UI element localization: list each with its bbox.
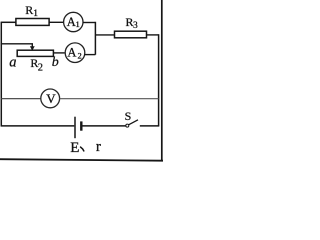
svg-text:1: 1 <box>76 19 80 29</box>
wire: right vertical <box>158 34 160 126</box>
wire: rheostat wiper feed <box>1 44 33 48</box>
wire: voltmeter row right <box>60 98 159 100</box>
svg-text:r: r <box>96 139 101 155</box>
resistor R3 <box>115 31 147 38</box>
svg-text:A: A <box>67 45 76 59</box>
svg-text:S: S <box>125 109 132 123</box>
svg-text:E: E <box>70 140 79 156</box>
label comma of E,r <box>81 147 84 151</box>
svg-text:R: R <box>25 3 33 17</box>
ammeter A1 <box>64 12 83 31</box>
svg-text:a: a <box>9 55 16 71</box>
switch S pivot <box>126 124 129 127</box>
wire: top-left to R1 <box>1 21 16 23</box>
wire: junction to R3 <box>95 34 114 36</box>
wire: R2 to A2 <box>53 52 64 54</box>
svg-text:b: b <box>52 55 59 70</box>
wire: battery to switch <box>83 125 126 127</box>
ammeter A2 <box>65 43 85 63</box>
wiper arrowhead <box>30 46 35 51</box>
svg-text:A: A <box>67 15 76 29</box>
svg-text:1: 1 <box>33 9 38 19</box>
rheostat R2 <box>17 50 53 56</box>
wire: R3 to right vertical <box>147 34 159 36</box>
wire: R1 to A1 <box>49 21 64 23</box>
switch S lever (open) <box>129 120 138 125</box>
svg-text:3: 3 <box>133 21 138 31</box>
svg-text:2: 2 <box>38 62 43 73</box>
wire: A2 to junction <box>84 54 95 56</box>
frame right border <box>161 0 163 161</box>
battery E,r short plate (-) <box>80 121 82 130</box>
wire: switch to right vertical <box>140 125 160 127</box>
wire: junction vertical <box>94 22 96 55</box>
svg-text:2: 2 <box>78 51 82 61</box>
wire: left vertical <box>0 22 2 125</box>
frame bottom border <box>0 159 163 161</box>
voltmeter V <box>41 89 60 108</box>
svg-text:V: V <box>46 91 56 106</box>
resistor R1 <box>16 19 49 26</box>
battery E,r long plate (+) <box>74 117 76 139</box>
wire: battery row left <box>1 125 75 127</box>
wire: A1 to junction <box>83 22 95 24</box>
wire: voltmeter row left <box>1 98 41 100</box>
